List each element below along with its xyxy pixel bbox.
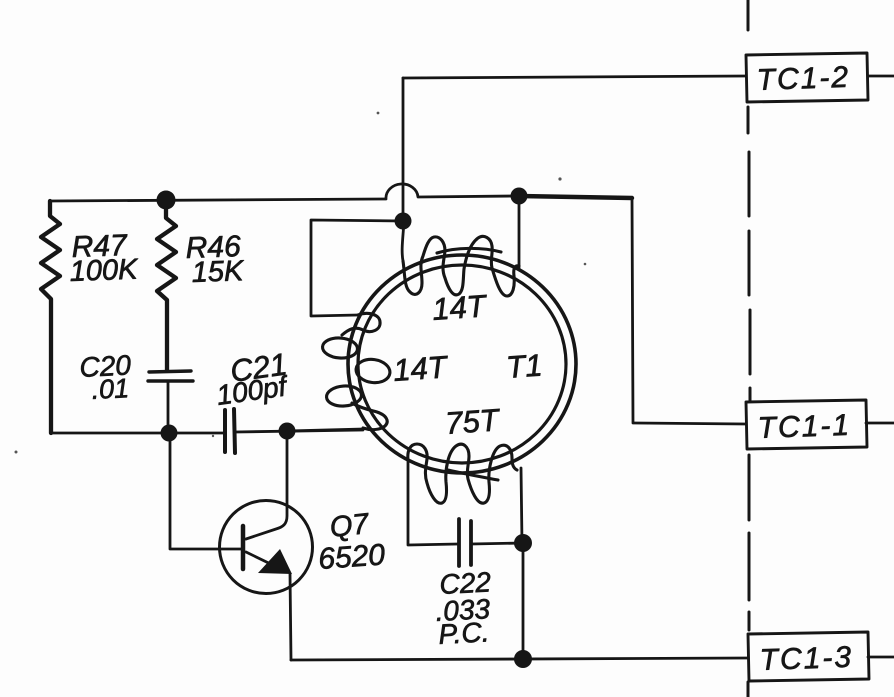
top winding 14T terminal right bbox=[518, 196, 521, 268]
junction dot C22 node bbox=[514, 534, 532, 552]
junction dot collector node bbox=[279, 423, 296, 440]
capacitor C22 bbox=[459, 519, 471, 566]
bottom winding 75T left terminal bbox=[408, 460, 458, 545]
transistor Q7 circle bbox=[220, 501, 313, 594]
svg-text:15K: 15K bbox=[191, 255, 245, 289]
junction dot top winding left bbox=[395, 213, 412, 230]
wire bottom-left horizontal bbox=[51, 432, 223, 435]
junction dot top winding right bbox=[511, 188, 528, 205]
wire TC1-2 drop vertical bbox=[402, 78, 405, 221]
junction dot top of R46 bbox=[157, 191, 176, 210]
capacitor C20 bbox=[148, 371, 193, 381]
transformer T1 outer ring bbox=[348, 255, 576, 473]
terminal box TC1-1 bbox=[746, 400, 867, 449]
label 6520 bbox=[317, 538, 386, 576]
transistor Q7 emitter bbox=[246, 552, 283, 570]
svg-text:P.C.: P.C. bbox=[438, 616, 490, 650]
label T1 bbox=[505, 348, 544, 385]
wire C21 to winding bbox=[235, 430, 363, 432]
label TC1-1 bbox=[757, 409, 851, 445]
transformer T1 inner ring bbox=[358, 265, 566, 463]
label .01 bbox=[91, 373, 130, 405]
top winding 14T terminal left bbox=[402, 221, 404, 261]
junction dot C20 bottom bbox=[161, 425, 178, 442]
wire bottom horizontal to TC1-3 bbox=[291, 658, 748, 660]
top winding 14T coil bbox=[403, 236, 519, 296]
label C22 bbox=[439, 566, 492, 600]
svg-text:.01: .01 bbox=[91, 373, 130, 405]
label C21 bbox=[228, 346, 289, 389]
svg-text:100pf: 100pf bbox=[215, 370, 292, 411]
label 15K bbox=[191, 255, 245, 289]
terminal box TC1-2 bbox=[746, 53, 868, 102]
label R46 bbox=[185, 230, 241, 265]
transistor Q7 base bar bbox=[241, 526, 246, 569]
wire left winding bottom terminal bbox=[287, 429, 363, 431]
wire down from C22 node bbox=[522, 543, 525, 659]
label R47 bbox=[71, 229, 128, 264]
resistor R47 bbox=[41, 201, 60, 433]
svg-text:Q7: Q7 bbox=[328, 508, 372, 544]
label .033 bbox=[435, 593, 491, 627]
transistor Q7 collector bbox=[246, 431, 287, 539]
svg-text:TC1-3: TC1-3 bbox=[759, 641, 853, 677]
label 100K bbox=[69, 254, 139, 288]
wire C22 right to junction bbox=[471, 543, 523, 544]
svg-text:T1: T1 bbox=[505, 348, 544, 385]
label TC1-2 bbox=[756, 61, 850, 97]
label 14T left winding bbox=[392, 349, 450, 388]
label Q7 bbox=[328, 508, 372, 544]
resistor R46 bbox=[157, 200, 176, 370]
wire thick to TC1-1 corner bbox=[519, 196, 632, 198]
wire left winding top terminal rectangle bbox=[311, 220, 403, 316]
wire TC1-2 right stub bbox=[868, 75, 894, 78]
svg-text:14T: 14T bbox=[392, 349, 450, 388]
wire emitter down bbox=[290, 574, 291, 660]
bottom winding 75T coil bbox=[408, 444, 517, 503]
left winding 14T coil bbox=[322, 313, 392, 429]
svg-text:75T: 75T bbox=[444, 402, 502, 441]
svg-text:100K: 100K bbox=[69, 254, 139, 288]
wire TC1-2 horizontal bbox=[403, 76, 746, 78]
wire top horizontal from R47 to junction with hop over TC1-2 drop bbox=[50, 184, 513, 201]
label 75T bottom winding bbox=[444, 402, 502, 441]
junction dot bottom wire bbox=[514, 650, 532, 668]
wire down to TC1-1 bbox=[632, 198, 746, 424]
wire TC1-1 right stub bbox=[866, 422, 894, 425]
capacitor C21 bbox=[225, 409, 235, 453]
scan speckles bbox=[15, 112, 587, 454]
bottom winding 75T right terminal bbox=[521, 468, 522, 543]
svg-text:TC1-1: TC1-1 bbox=[757, 409, 851, 445]
label 100pf bbox=[215, 370, 292, 411]
svg-text:6520: 6520 bbox=[317, 538, 386, 576]
label 14T top winding bbox=[431, 288, 489, 327]
wire TC1-3 right stub bbox=[868, 656, 894, 659]
terminal box TC1-3 bbox=[748, 632, 869, 681]
label C20 bbox=[79, 349, 132, 383]
svg-text:TC1-2: TC1-2 bbox=[756, 61, 850, 97]
dashed board boundary line bbox=[748, 0, 750, 697]
wire C20 bottom to junction bbox=[167, 381, 170, 432]
label TC1-3 bbox=[759, 641, 853, 677]
wire base branch bbox=[170, 433, 241, 549]
transistor Q7 emitter arrowhead bbox=[258, 549, 292, 574]
label P.C. bbox=[438, 616, 490, 650]
